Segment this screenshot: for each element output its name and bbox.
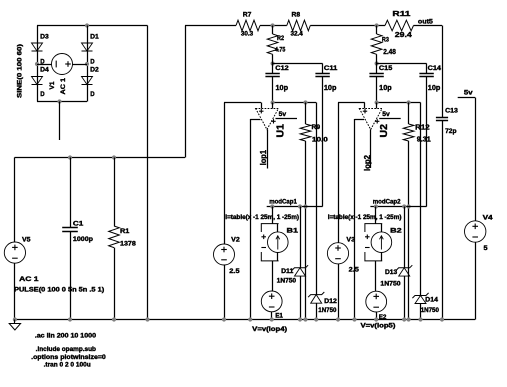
- arrow of B1: [276, 236, 280, 250]
- svg-text:V=v(lop4): V=v(lop4): [252, 326, 287, 333]
- label B2: [390, 227, 402, 234]
- svg-text:5v: 5v: [279, 111, 287, 118]
- wire feed riser: [185, 26, 187, 158]
- voltage source V5: [4, 242, 25, 263]
- wire V5 riser: [14, 158, 16, 243]
- svg-text:10p: 10p: [428, 85, 441, 92]
- value 1378 of R1: [120, 241, 136, 248]
- junction bus / R12: [407, 317, 411, 321]
- diode D4: [32, 77, 43, 85]
- value 2.5 of V3: [349, 267, 360, 274]
- wire U1 V+ stub: [276, 118, 298, 120]
- wire U1 V- stub: [250, 119, 260, 121]
- wire 5v stub: [458, 97, 476, 99]
- wire B2 circle bottom stub: [381, 252, 383, 261]
- value 72p of C13: [445, 128, 456, 135]
- value V=v(lop4) of E1: [252, 326, 287, 333]
- svg-text:C11: C11: [324, 65, 338, 72]
- wire U2 noninverting stub: [364, 103, 366, 109]
- label C1: [73, 221, 84, 228]
- wire R2 bottom lead: [272, 54, 274, 63]
- wire op-amp2 input line right: [377, 102, 421, 104]
- junction R3 top: [375, 23, 379, 27]
- svg-text:9.31: 9.31: [417, 137, 431, 144]
- value PULSE of V5: [14, 287, 104, 294]
- label R11: [392, 9, 410, 18]
- svg-text:R12: R12: [415, 124, 430, 131]
- resistor R11: [385, 20, 414, 31]
- wire source V1 left lead: [37, 64, 52, 66]
- svg-text:R2: R2: [277, 35, 284, 42]
- wire C13 to bus: [442, 121, 444, 320]
- label V1 (rotated): [49, 81, 56, 89]
- value V=v(lop5) of E2: [361, 323, 396, 330]
- label D2: [90, 67, 99, 74]
- capacitor C11: [315, 74, 329, 77]
- svg-text:.tran 0 2 0 100u: .tran 0 2 0 100u: [44, 362, 91, 369]
- value AC 1 of V5: [19, 276, 39, 283]
- wire C15 bottom lead: [376, 77, 378, 103]
- diode D2: [82, 77, 93, 85]
- wire V3 to bus: [338, 264, 340, 320]
- svg-text:AC 1: AC 1: [19, 276, 39, 283]
- junction R12 / mid line: [407, 204, 411, 208]
- svg-text:B1: B1: [287, 227, 299, 234]
- wire U1 V- drop to bus: [250, 119, 252, 320]
- svg-text:B2: B2: [390, 227, 402, 234]
- wire C15 top lead: [376, 64, 378, 74]
- wire U2 V- stub: [355, 119, 365, 121]
- wire U1 noninverting stub: [261, 103, 263, 109]
- wire C14 drop: [426, 77, 428, 207]
- svg-text:lop2: lop2: [363, 154, 372, 171]
- wire R3 bottom lead: [376, 54, 378, 63]
- wire V2 riser: [224, 103, 226, 245]
- svg-text:.ac lin 200 10 1000: .ac lin 200 10 1000: [35, 332, 97, 339]
- resistor R8: [287, 20, 311, 31]
- svg-text:V1: V1: [49, 81, 56, 89]
- voltage source V3: [327, 243, 348, 264]
- wire C12 bottom lead: [272, 77, 274, 103]
- svg-text:D3: D3: [40, 33, 49, 40]
- label D4: [40, 67, 49, 74]
- svg-text:.include opamp.sub: .include opamp.sub: [36, 346, 97, 353]
- svg-text:out5: out5: [418, 19, 433, 26]
- net label modCap2: [373, 199, 401, 206]
- label D3: [40, 33, 49, 40]
- svg-text:R3: R3: [382, 36, 389, 43]
- svg-text:V=v(lop5): V=v(lop5): [361, 323, 396, 330]
- wire bridge top rail: [37, 25, 148, 27]
- wire B2 to E2: [375, 261, 377, 291]
- svg-text:I=table(x -1 25m, 1 -25m): I=table(x -1 25m, 1 -25m): [328, 214, 402, 221]
- wire E1 to bus: [271, 312, 273, 320]
- svg-text:D2: D2: [90, 67, 99, 74]
- svg-text:R1: R1: [120, 228, 130, 235]
- value 29.4 of R11: [395, 30, 412, 39]
- wire C11 drop: [322, 77, 324, 207]
- junction bus / D12: [314, 317, 318, 321]
- svg-text:1N750: 1N750: [318, 307, 337, 314]
- label V5: [22, 236, 31, 243]
- wire mid line stage2: [370, 206, 426, 208]
- wire bridge left rail: [37, 26, 39, 102]
- svg-text:D12: D12: [324, 298, 337, 305]
- svg-text:modCap1: modCap1: [269, 199, 297, 206]
- value 2.48 of R3: [383, 49, 396, 56]
- svg-text:1000p: 1000p: [73, 236, 93, 243]
- value 10p of C12: [276, 85, 289, 92]
- plus marker of B1: [261, 235, 266, 240]
- wire D13 to bus: [404, 276, 406, 319]
- value 5 of V4: [484, 245, 489, 252]
- resistor R9: [300, 124, 311, 141]
- junction R3 bottom tee: [375, 61, 379, 65]
- svg-text:I=table(x -1 25m, 1 -25m): I=table(x -1 25m, 1 -25m): [225, 214, 299, 221]
- svg-text:10p: 10p: [324, 85, 337, 92]
- wire bridge output stub: [59, 102, 61, 141]
- svg-text:C13: C13: [445, 108, 458, 115]
- label C11: [324, 65, 338, 72]
- svg-text:5v: 5v: [382, 111, 390, 118]
- label D12: [324, 298, 337, 305]
- junction bus / D13: [402, 317, 406, 321]
- junction feed / R1: [112, 155, 116, 159]
- resistor R2: [267, 34, 278, 54]
- op-amp U2 body: [359, 109, 382, 130]
- wire ground bus: [15, 319, 475, 321]
- svg-text:5: 5: [484, 245, 489, 252]
- value D of D1: [90, 58, 95, 65]
- svg-text:10p: 10p: [276, 85, 289, 92]
- value 1N750 of D11: [277, 278, 297, 285]
- wire mid line stage1: [267, 206, 323, 208]
- svg-text:1378: 1378: [120, 241, 136, 248]
- svg-text:V2: V2: [231, 237, 240, 244]
- svg-text:1N750: 1N750: [277, 278, 297, 285]
- label E2: [379, 314, 387, 321]
- wire D13 column: [404, 207, 406, 268]
- svg-text:D11: D11: [281, 268, 294, 275]
- svg-text:D: D: [90, 91, 95, 98]
- wire D14 to bus: [420, 304, 422, 320]
- label D11: [281, 268, 294, 275]
- label E1: [275, 312, 283, 319]
- voltage source E1: [261, 291, 282, 312]
- svg-text:C1: C1: [73, 221, 84, 228]
- net label lop2 (rotated): [363, 154, 372, 171]
- svg-text:R11: R11: [392, 9, 410, 18]
- value 1N750 of D13: [380, 280, 401, 287]
- voltage source E2: [366, 291, 387, 312]
- value D of D3: [40, 58, 45, 65]
- value I=table of B2: [328, 214, 402, 221]
- wire U2 V+ stub: [379, 118, 401, 120]
- svg-text:D1: D1: [90, 33, 99, 40]
- junction mid line2 / B2: [374, 204, 378, 208]
- wire bridge right rail: [87, 26, 89, 102]
- wire top of C15-C14: [377, 63, 427, 65]
- junction bus / C13: [440, 317, 444, 321]
- value 1N750 of D12: [318, 307, 337, 314]
- junction bus / C1: [68, 317, 72, 321]
- wire U1 inverting stub: [272, 103, 274, 109]
- directive .tran: [44, 362, 91, 369]
- label R9: [312, 124, 321, 131]
- svg-text:U1: U1: [276, 124, 287, 138]
- wire C1 top lead: [70, 158, 72, 228]
- wire C12 top lead: [272, 64, 274, 74]
- minus sign of V5: [12, 257, 18, 259]
- minus sign of V4: [472, 236, 478, 238]
- label R7: [243, 12, 252, 19]
- svg-text:D4: D4: [40, 67, 49, 74]
- wire B1 circle top stub: [277, 224, 279, 232]
- current source B1 bracket: [261, 224, 278, 261]
- wire R9 bottom to bus: [305, 141, 307, 320]
- svg-text:2.5: 2.5: [229, 268, 240, 275]
- wire R9 top lead: [305, 103, 307, 125]
- junction bus / E2: [374, 317, 378, 321]
- net label lop1 (rotated): [259, 149, 268, 165]
- value 1000p of C1: [73, 236, 93, 243]
- current source B2 circle: [371, 232, 392, 253]
- resistor R1: [109, 226, 120, 248]
- junction input line2 / R12: [407, 100, 411, 104]
- junction bus / R1: [112, 317, 116, 321]
- capacitor C12: [265, 74, 279, 77]
- label U1 (rotated): [276, 124, 287, 138]
- wire op-amp1 input line right: [273, 102, 317, 104]
- wire U2 V- drop to bus: [354, 119, 356, 320]
- svg-text:C12: C12: [275, 65, 289, 72]
- wire C14 top lead: [426, 64, 428, 74]
- diode D1: [82, 43, 93, 51]
- junction mid line / D11: [298, 204, 302, 208]
- wire B1 top lead: [272, 207, 274, 224]
- plus marker U1 supply: [271, 119, 275, 123]
- zener diode D14: [412, 293, 428, 304]
- junction bus / V5: [13, 317, 17, 321]
- value D of D2: [90, 91, 95, 98]
- junction R9 / mid line: [303, 204, 307, 208]
- zener diode D12: [308, 292, 324, 303]
- svg-text:SINE(0 100 60): SINE(0 100 60): [17, 44, 24, 98]
- plus sign of V4: [472, 224, 478, 230]
- resistor R12: [403, 124, 414, 141]
- wire R8 to R11: [310, 25, 385, 27]
- junction bus / D11: [298, 317, 302, 321]
- junction bus / E1: [270, 317, 274, 321]
- plus marker U2 input: [363, 109, 367, 113]
- svg-text:32.4: 32.4: [291, 31, 304, 38]
- junction R2 top: [271, 23, 275, 27]
- junction bus / bridge drop: [145, 317, 149, 321]
- voltage source V4: [465, 221, 486, 242]
- svg-text:4.75: 4.75: [275, 47, 286, 54]
- label R8: [292, 12, 301, 19]
- wire bridge bottom rail: [37, 101, 87, 103]
- plus marker U1 input: [259, 109, 263, 113]
- wire D14 drop: [420, 103, 422, 296]
- label C15: [379, 65, 393, 72]
- wire U2 output stub: [370, 130, 372, 169]
- current source B1 circle: [268, 232, 289, 253]
- label R2: [277, 35, 284, 42]
- minus marker of B2: [365, 247, 370, 249]
- minus sign of E1: [269, 306, 275, 308]
- wire out5 drop / C13 column: [442, 26, 444, 118]
- label D14: [425, 297, 438, 304]
- junction bus / V2: [222, 317, 226, 321]
- label U2 (rotated): [379, 124, 390, 138]
- value 10p of C11: [324, 85, 337, 92]
- svg-text:1N750: 1N750: [421, 307, 440, 314]
- minus sign of V3: [335, 258, 341, 260]
- value SINE(0 100 60) of V1 (rotated): [17, 44, 24, 98]
- svg-text:2.48: 2.48: [383, 49, 396, 56]
- junction bridge top right: [85, 23, 89, 27]
- svg-text:E1: E1: [275, 312, 283, 319]
- wire source V1 right lead: [73, 64, 88, 66]
- arrow of B2: [380, 236, 384, 250]
- wire V3 riser: [338, 103, 340, 243]
- svg-text:V5: V5: [22, 236, 31, 243]
- junction bus / D14: [418, 317, 422, 321]
- wire R3 top lead: [376, 26, 378, 35]
- wire U1 output stub: [267, 130, 269, 169]
- wire top of C12-C11: [273, 63, 323, 65]
- svg-text:.options plotwinsize=0: .options plotwinsize=0: [31, 354, 106, 361]
- wire R12 top lead: [408, 103, 410, 125]
- junction bus / U2 V-: [352, 317, 356, 321]
- junction bridge left mid: [35, 62, 39, 66]
- wire R2 top lead: [272, 26, 274, 35]
- wire bridge ground drop: [147, 26, 149, 320]
- value 9.31 of R12: [417, 137, 431, 144]
- value 32.4 of R8: [291, 31, 304, 38]
- label V3: [346, 236, 355, 243]
- junction bus / V3: [336, 317, 340, 321]
- label D13: [385, 269, 398, 276]
- wire R12 bottom to bus: [408, 141, 410, 320]
- svg-text:R8: R8: [292, 12, 301, 19]
- value 10p of C14: [428, 85, 441, 92]
- junction bridge right mid: [85, 62, 89, 66]
- capacitor C14: [419, 74, 433, 77]
- wire op-amp1 input line left: [224, 102, 261, 104]
- junction input line / C12: [271, 100, 275, 104]
- wire feed line: [15, 157, 186, 159]
- wire U2 inverting stub: [376, 103, 378, 109]
- svg-text:10.0: 10.0: [312, 136, 329, 143]
- svg-text:V4: V4: [483, 214, 494, 221]
- svg-text:D13: D13: [385, 269, 398, 276]
- label C14: [428, 65, 442, 72]
- label R1: [120, 228, 130, 235]
- junction bus / U1 V-: [248, 317, 252, 321]
- svg-text:modCap2: modCap2: [373, 199, 401, 206]
- wire V5 to bus: [14, 263, 16, 319]
- plus sign of V5: [12, 245, 18, 251]
- net label out5: [418, 19, 433, 26]
- junction R2 bottom tee: [271, 61, 275, 65]
- net label 5v at U2: [382, 111, 390, 118]
- svg-text:D: D: [40, 58, 45, 65]
- wire R1 to bus: [114, 248, 116, 320]
- junction bus / R9: [303, 317, 307, 321]
- resistor R7: [236, 20, 260, 31]
- svg-text:5v: 5v: [464, 90, 473, 97]
- label B1: [287, 227, 299, 234]
- directive .options: [31, 354, 106, 361]
- plus marker U2 supply: [375, 119, 379, 123]
- wire B1 circle bottom stub: [277, 252, 279, 261]
- svg-text:72p: 72p: [445, 128, 456, 135]
- wire feed to R7: [185, 25, 236, 27]
- wire C1 to bus: [70, 232, 72, 320]
- label R12: [415, 124, 430, 131]
- label R3: [382, 36, 389, 43]
- wire V4 to bus: [475, 242, 477, 319]
- svg-text:10p: 10p: [379, 85, 392, 92]
- junction bridge bottom center: [57, 99, 61, 103]
- svg-text:29.4: 29.4: [395, 30, 412, 39]
- net label 5v at U1: [279, 111, 287, 118]
- diode D3: [32, 43, 43, 51]
- value 4.75 of R2: [275, 47, 286, 54]
- voltage source V1 (bridge center): [52, 54, 73, 75]
- value 10.0 of R9: [312, 136, 329, 143]
- wire R7 to node: [260, 25, 287, 27]
- net label 5v rail: [464, 90, 473, 97]
- directive .include: [36, 346, 97, 353]
- wire D12 drop: [316, 103, 318, 295]
- zener diode D11: [292, 265, 308, 276]
- value 1N750 of D14: [421, 307, 440, 314]
- capacitor C13: [436, 118, 448, 121]
- svg-text:U2: U2: [379, 124, 390, 138]
- value I=table of B1: [225, 214, 299, 221]
- wire E2 to bus: [376, 312, 378, 320]
- label V2: [231, 237, 240, 244]
- wire D11 to bus: [300, 276, 302, 319]
- svg-text:1N750: 1N750: [380, 280, 401, 287]
- capacitor C1: [62, 228, 78, 232]
- op-amp U1 body: [256, 109, 279, 130]
- label C13: [445, 108, 458, 115]
- svg-text:lop1: lop1: [259, 149, 268, 165]
- plus sign of E2: [373, 294, 379, 300]
- wire R1 top lead: [114, 158, 116, 227]
- svg-text:AC 1: AC 1: [60, 77, 67, 94]
- minus sign of E2: [373, 306, 379, 308]
- junction mid line2 / D13: [402, 204, 406, 208]
- value AC 1 of V1 (rotated): [60, 77, 67, 94]
- svg-text:D: D: [90, 58, 95, 65]
- plus sign of V3: [335, 245, 341, 251]
- junction input line / R9: [303, 100, 307, 104]
- wire C11 top lead: [322, 64, 324, 74]
- value 10p of C15: [379, 85, 392, 92]
- plus sign of E1: [269, 293, 275, 299]
- capacitor C15: [369, 74, 383, 77]
- minus sign of V1: [55, 61, 57, 68]
- plus marker of B2: [365, 235, 370, 240]
- junction mid line / B1: [270, 204, 274, 208]
- svg-text:R7: R7: [243, 12, 252, 19]
- current source B2 bracket: [365, 224, 382, 261]
